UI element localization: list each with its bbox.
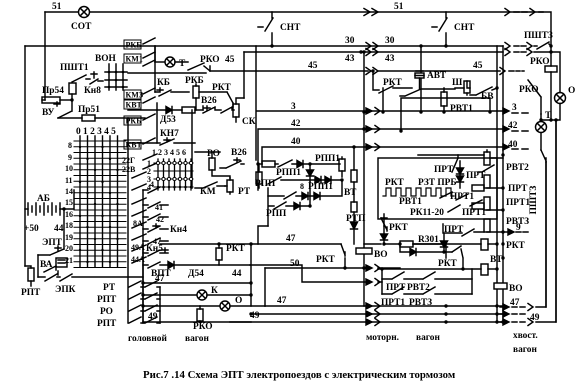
svg-text:Д54: Д54 <box>188 269 204 279</box>
wire y282 feed to PRT box <box>378 281 382 283</box>
svg-text:РКТ: РКТ <box>506 241 526 251</box>
resistor left x259 <box>256 172 262 184</box>
svg-text:РЗТ ПРБ: РЗТ ПРБ <box>418 178 457 188</box>
svg-text:45: 45 <box>225 55 235 65</box>
vertical bus x155 head <box>154 46 156 62</box>
dash-chevron wire 43 right <box>505 49 532 56</box>
diode pair down x444 <box>443 234 445 241</box>
resistor SK <box>233 104 239 117</box>
svg-text:О: О <box>235 296 242 306</box>
svg-text:СНТ: СНТ <box>280 23 301 33</box>
tail: wire mid dash <box>500 313 525 315</box>
svg-text:моторн.: моторн. <box>366 333 399 343</box>
junction 43 x361 <box>359 50 362 53</box>
cam contacts right of grid <box>132 172 146 263</box>
left border vertical <box>24 46 26 266</box>
svg-text:8: 8 <box>68 141 72 150</box>
svg-text:Пр51: Пр51 <box>78 105 100 115</box>
svg-text:4: 4 <box>150 180 154 189</box>
svg-text:БВ: БВ <box>481 92 493 102</box>
svg-text:Рис.7 .14 Схема ЭПТ электропое: Рис.7 .14 Схема ЭПТ электропоездов с эле… <box>143 369 456 381</box>
svg-text:СК: СК <box>242 117 256 127</box>
svg-text:РПП1: РПП1 <box>276 168 301 178</box>
wire 30 (y=46) <box>25 45 503 47</box>
diode D53 row <box>128 109 166 111</box>
dash-chevron wire 45 right <box>500 68 520 75</box>
svg-text:В26: В26 <box>201 96 217 106</box>
svg-text:43: 43 <box>345 54 355 64</box>
coupler chevron wire 40 <box>366 144 372 150</box>
svg-text:3: 3 <box>291 102 296 112</box>
tail: lamp O <box>555 93 566 104</box>
wire 49 head y=322 <box>143 321 251 323</box>
svg-text:30: 30 <box>345 36 355 46</box>
svg-text:19: 19 <box>65 233 73 242</box>
ladder: contact row Kn5 <box>143 248 168 256</box>
svg-text:43: 43 <box>385 54 395 64</box>
tail: right vertical to 49 <box>555 120 557 322</box>
svg-text:Кн5: Кн5 <box>146 244 163 254</box>
bottom bus wires y=306,314,322 <box>265 305 503 307</box>
svg-text:44: 44 <box>54 224 64 234</box>
resistor VO on bus x364 <box>356 248 372 254</box>
svg-text:Т: Т <box>179 59 186 69</box>
wire R301 row to diode row <box>400 244 410 252</box>
device AVT <box>415 73 424 78</box>
svg-text:42: 42 <box>156 215 164 224</box>
contacts of relay column <box>143 38 157 169</box>
coupler chevron wire 3 <box>366 108 372 114</box>
switch BV <box>470 87 497 95</box>
ladder: contact row 41 <box>143 202 168 208</box>
svg-text:РКБ: РКБ <box>126 41 142 50</box>
coupler chevron wire 50 <box>366 265 372 271</box>
relay box <box>378 158 497 219</box>
diode down x310 <box>307 170 314 176</box>
svg-text:КМ1: КМ1 <box>126 55 143 64</box>
motor bus x421 <box>420 46 422 112</box>
svg-text:18: 18 <box>65 221 73 230</box>
resistor RT <box>227 180 233 192</box>
vertical bus x364 motor <box>363 52 365 306</box>
svg-text:ПРТ: ПРТ <box>466 171 486 181</box>
svg-text:ВТ: ВТ <box>344 188 357 198</box>
wire 3 (y=112) <box>256 46 508 160</box>
svg-text:44: 44 <box>232 269 242 279</box>
wire 43 tail corner to lamp O <box>534 52 560 93</box>
svg-text:20: 20 <box>65 244 73 253</box>
svg-text:КВТ: КВТ <box>126 101 143 110</box>
svg-text:45: 45 <box>473 61 483 71</box>
svg-text:СОТ: СОТ <box>71 22 92 32</box>
svg-text:ПРТ: ПРТ <box>508 184 528 194</box>
svg-text:1 2 3 4 5 6: 1 2 3 4 5 6 <box>152 148 186 157</box>
svg-text:16: 16 <box>65 210 73 219</box>
svg-text:ЭПТ: ЭПТ <box>42 238 63 248</box>
svg-text:РВТ1: РВТ1 <box>399 197 422 207</box>
lamp COT <box>79 7 90 18</box>
coupler dash-chevron wire 51 right <box>505 9 510 16</box>
lamp O head <box>143 305 219 307</box>
svg-text:РВТ2: РВТ2 <box>506 163 529 173</box>
svg-text:РКТ: РКТ <box>316 255 336 265</box>
svg-text:РВТЗ: РВТЗ <box>506 217 529 227</box>
svg-text:Кн8: Кн8 <box>84 86 101 96</box>
svg-text:+50: +50 <box>24 224 39 234</box>
svg-text:ПШТЗ: ПШТЗ <box>524 31 553 41</box>
PRT RVT2 contact row <box>382 269 472 294</box>
wire 51 corner right <box>539 12 551 46</box>
RPP cluster row1 y=164 <box>256 162 259 165</box>
diode x384 <box>381 234 388 240</box>
svg-text:47: 47 <box>286 234 296 244</box>
junction dots bottom buses x446 <box>444 304 447 307</box>
controller grid rows <box>74 141 126 268</box>
wire 47b y=283 <box>143 282 251 284</box>
ladder: contact row 47 <box>143 238 168 244</box>
svg-text:РПП: РПП <box>266 209 287 219</box>
svg-text:Д53: Д53 <box>160 115 176 125</box>
wire 42 (y=129) <box>258 129 508 190</box>
coupler chevrons wire 43 <box>366 49 378 56</box>
svg-text:РКТ: РКТ <box>226 244 246 254</box>
svg-text:41: 41 <box>155 203 163 212</box>
dash-arrow wire 42 tail <box>503 126 509 132</box>
svg-text:ВУ: ВУ <box>42 108 54 118</box>
svg-text:14: 14 <box>65 187 73 196</box>
svg-text:РПТ: РПТ <box>97 295 117 305</box>
svg-text:30: 30 <box>385 36 395 46</box>
svg-text:РК11-20: РК11-20 <box>410 208 444 218</box>
svg-text:51: 51 <box>52 2 62 12</box>
svg-text:Кн4: Кн4 <box>170 225 187 235</box>
svg-text:ВТ: ВТ <box>490 255 503 265</box>
svg-text:3: 3 <box>512 103 517 113</box>
svg-text:вагон: вагон <box>416 333 440 343</box>
resistor RKO head <box>197 309 203 321</box>
svg-text:ЭПК: ЭПК <box>55 285 76 295</box>
svg-text:КМЗ: КМЗ <box>126 91 144 100</box>
svg-text:РО: РО <box>100 307 113 317</box>
svg-text:ВО: ВО <box>374 250 388 260</box>
ladder: contact row VPT with diode D54 <box>143 262 168 268</box>
box sawtooth resistors row <box>383 188 454 196</box>
verticals head bottom <box>143 244 251 322</box>
svg-text:хвост.: хвост. <box>513 331 538 341</box>
resistor VO right <box>494 283 507 289</box>
svg-text:О: О <box>568 86 575 96</box>
box top feed row y=155 <box>418 154 484 156</box>
box contacts <box>440 192 482 206</box>
wire 50 (y=265) <box>265 267 400 269</box>
wire y269 with VT resistor <box>378 268 481 270</box>
svg-text:РПТ: РПТ <box>97 319 117 329</box>
junction bottom of RPP <box>258 226 268 244</box>
VT column x354 <box>353 147 355 170</box>
svg-text:РПП: РПП <box>255 179 276 189</box>
wire 51 top <box>45 11 543 13</box>
contactor fingers row <box>203 106 234 113</box>
junction CHT2/30 <box>444 44 447 47</box>
svg-text:РПТ: РПТ <box>21 288 41 298</box>
wire 43 (y=52) <box>244 51 503 53</box>
svg-text:РКБ: РКБ <box>185 76 204 86</box>
resistor RPP1 right <box>339 159 345 171</box>
tail: switch PSHT3 lower <box>541 150 546 162</box>
svg-text:40: 40 <box>291 137 301 147</box>
svg-text:РТ: РТ <box>238 187 251 197</box>
svg-text:РКТ: РКТ <box>385 178 405 188</box>
ladder: contact row 4 <box>143 187 160 193</box>
svg-text:В26: В26 <box>231 148 247 158</box>
svg-text:ВОН: ВОН <box>95 54 117 64</box>
RPP cluster row4 y=206 <box>268 188 294 226</box>
ladder: contact row 42 <box>143 214 168 220</box>
resistor RPT (left bottom) <box>25 266 31 268</box>
tail: lamp T <box>536 122 547 133</box>
svg-text:РКО: РКО <box>200 55 220 65</box>
diodes in box x460 <box>457 168 464 174</box>
svg-text:КН7: КН7 <box>160 129 179 139</box>
fuse vertical under PSHT1 <box>69 83 76 94</box>
dash-arrow wire 3 tail <box>503 108 509 114</box>
ladder left bus <box>142 190 144 323</box>
relay contact column: boxed labels <box>122 40 143 174</box>
right bus x497 motor <box>496 46 498 322</box>
lamp K <box>143 294 196 296</box>
svg-text:РКТ: РКТ <box>438 259 458 269</box>
wire 44b (y=282) <box>250 265 368 282</box>
svg-text:ПРТ1: ПРТ1 <box>450 192 474 202</box>
vertical bus x160 bottom <box>159 287 161 323</box>
svg-text:РКО: РКО <box>193 322 213 332</box>
switch CHT motor car <box>432 12 447 46</box>
svg-text:КБ: КБ <box>157 78 170 88</box>
switch CHT head car <box>258 12 273 46</box>
vertical bus x128 ladder <box>127 118 129 323</box>
coupler chevron wire 45 <box>366 68 378 75</box>
svg-text:9: 9 <box>68 153 72 162</box>
svg-text:47: 47 <box>277 296 287 306</box>
ladder: contact row Kn4 <box>143 224 168 232</box>
svg-text:ПШТЗ: ПШТЗ <box>529 186 539 215</box>
svg-text:15: 15 <box>65 198 73 207</box>
svg-text:50: 50 <box>290 259 300 269</box>
switch RKO 45 <box>175 62 210 71</box>
svg-text:вагон: вагон <box>513 345 537 355</box>
wire 47 head (y=244) <box>160 243 341 245</box>
svg-text:головной: головной <box>128 333 167 344</box>
coupler chevrons wire 30 <box>366 43 378 50</box>
svg-text:45: 45 <box>308 61 318 71</box>
dash-chevron wire 30 right, PSHT3 switch <box>505 43 532 50</box>
wire: vertical x45 from wire51 down <box>44 12 46 100</box>
wire 45 (y=71) <box>210 70 500 72</box>
coupler chevrons on wire 51 <box>364 9 378 16</box>
controller grid verticals <box>80 136 118 267</box>
svg-text:АВТ: АВТ <box>427 71 447 81</box>
vertical bus x157 segment <box>156 103 158 143</box>
wire left vertical to fuse row <box>42 99 45 101</box>
coupler chevron wire 42 <box>366 126 372 132</box>
right bus x503 boundary <box>502 46 504 322</box>
svg-text:ПРТ1: ПРТ1 <box>381 298 405 308</box>
wire 47 motor to RKT <box>364 243 381 245</box>
svg-text:ВО: ВО <box>509 284 523 294</box>
svg-text:42: 42 <box>291 119 301 129</box>
svg-text:22В: 22В <box>122 165 136 174</box>
controller grid junction dots <box>79 146 119 263</box>
svg-text:СНТ: СНТ <box>454 23 475 33</box>
svg-text:ПШТ1: ПШТ1 <box>60 63 89 73</box>
resistor RVT1 <box>441 92 447 106</box>
svg-text:8А: 8А <box>133 219 143 228</box>
resistor RKT right column on R301 row <box>413 243 481 245</box>
svg-text:Ш: Ш <box>452 78 463 88</box>
fuse Pr54 <box>42 97 60 103</box>
svg-text:47: 47 <box>155 274 165 284</box>
RPP cluster row3 y=196 <box>268 192 302 199</box>
wire y73 kb row feed <box>128 46 244 98</box>
svg-text:8: 8 <box>300 182 304 191</box>
svg-text:РВТ1: РВТ1 <box>450 104 473 114</box>
svg-text:РПП1: РПП1 <box>315 154 340 164</box>
coupler chevrons bottom buses <box>366 303 372 309</box>
svg-text:ПРТ: ПРТ <box>434 165 454 175</box>
wire battery to EPT <box>63 209 65 249</box>
svg-text:РТ: РТ <box>103 283 116 293</box>
svg-text:10: 10 <box>65 164 73 173</box>
lamp T head <box>155 61 164 63</box>
PRT1 RVT3 contact row <box>382 287 472 294</box>
svg-text:РКТ: РКТ <box>389 223 409 233</box>
resistor on D53 row <box>182 107 195 113</box>
svg-text:51: 51 <box>394 2 404 12</box>
wire vertical x383 to wire 3 <box>382 88 384 112</box>
wire 40 (y=145) <box>262 147 508 164</box>
wire y98 crossing <box>401 98 490 131</box>
resistor RKT head bottom <box>216 248 222 260</box>
switch PSHT3 <box>534 42 551 49</box>
junction CHT1/30 <box>270 44 273 47</box>
svg-text:49: 49 <box>148 312 158 322</box>
svg-text:11: 11 <box>65 176 73 185</box>
small grid <box>158 159 191 190</box>
svg-text:Пр54: Пр54 <box>42 86 64 96</box>
svg-text:вагон: вагон <box>185 334 209 344</box>
resistor RKB <box>193 86 199 98</box>
dash-arrow wire 40 tail <box>503 144 509 150</box>
svg-text:РВТЗ: РВТЗ <box>409 298 432 308</box>
svg-text:ПРТ1: ПРТ1 <box>506 198 530 208</box>
